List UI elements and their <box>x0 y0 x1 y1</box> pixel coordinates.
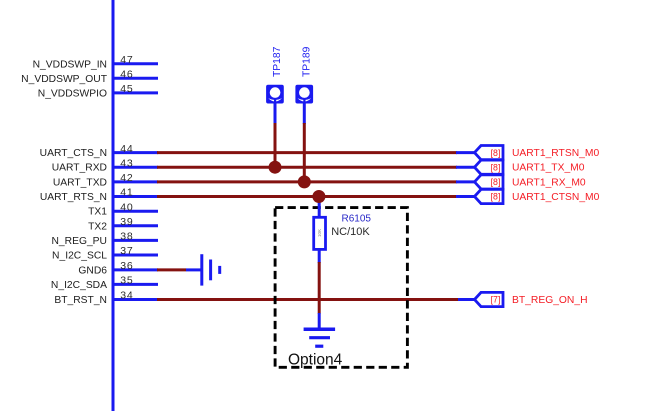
svg-text:N_REG_PU: N_REG_PU <box>51 236 107 247</box>
svg-text:UART_TXD: UART_TXD <box>53 177 107 188</box>
svg-text:N_VDDSWP_IN: N_VDDSWP_IN <box>33 59 107 70</box>
label UART1_RTSN_M0 <box>512 148 599 159</box>
svg-text:[8]: [8] <box>491 192 501 202</box>
port UART1_RTSN_M0 <box>456 146 503 160</box>
svg-text:UART_CTS_N: UART_CTS_N <box>40 148 107 159</box>
label BT_REG_ON_H <box>512 295 588 306</box>
pin 42 UART_TXD <box>53 172 158 188</box>
svg-text:40: 40 <box>120 201 133 213</box>
svg-text:[8]: [8] <box>491 177 501 187</box>
pin 46 N_VDDSWP_OUT <box>21 69 158 85</box>
svg-text:10K: 10K <box>317 229 322 237</box>
svg-text:TP189: TP189 <box>301 46 312 77</box>
svg-text:34: 34 <box>120 290 133 302</box>
pin 36 GND6 <box>78 260 158 276</box>
test point TP187 <box>266 46 284 124</box>
svg-text:N_I2C_SDA: N_I2C_SDA <box>51 280 107 291</box>
svg-text:BT_REG_ON_H: BT_REG_ON_H <box>512 295 588 306</box>
label NC/10K <box>331 226 370 238</box>
pin 38 N_REG_PU <box>51 231 158 247</box>
dashed option box <box>275 208 407 368</box>
ground symbol GND6 <box>186 254 220 285</box>
junction dot R6105/UART_RTS_N <box>312 190 325 203</box>
svg-text:UART1_CTSN_M0: UART1_CTSN_M0 <box>512 192 600 203</box>
svg-text:47: 47 <box>120 54 133 66</box>
label R6105 <box>342 214 372 225</box>
label UART1_TX_M0 <box>512 163 585 174</box>
svg-text:39: 39 <box>120 216 133 228</box>
junction dot TP187/UART_RXD <box>269 161 282 174</box>
svg-text:42: 42 <box>120 172 133 184</box>
svg-text:35: 35 <box>120 275 133 287</box>
pin 44 UART_CTS_N <box>40 143 158 159</box>
svg-text:[8]: [8] <box>491 162 501 172</box>
svg-text:UART1_RTSN_M0: UART1_RTSN_M0 <box>512 148 599 159</box>
wire R6105 to ground <box>318 262 321 314</box>
wire BT_RST_N net <box>157 298 459 301</box>
svg-text:UART_RXD: UART_RXD <box>52 163 107 174</box>
svg-text:36: 36 <box>120 260 133 272</box>
wire GND6 net <box>157 268 186 271</box>
svg-text:NC/10K: NC/10K <box>331 226 370 238</box>
pin 35 N_I2C_SDA <box>51 275 158 291</box>
wire UART_TXD net <box>157 180 457 183</box>
svg-text:38: 38 <box>120 231 133 243</box>
pin 45 N_VDDSWPIO <box>38 83 158 99</box>
svg-text:TP187: TP187 <box>272 46 283 77</box>
pin 40 TX1 <box>88 201 158 217</box>
label UART1_RX_M0 <box>512 177 586 188</box>
resistor R6105 <box>314 198 326 263</box>
ground symbol in option box <box>304 313 336 346</box>
wire TP187 to UART_RXD <box>274 123 277 167</box>
svg-text:[8]: [8] <box>491 148 501 158</box>
port UART1_CTSN_M0 <box>456 189 503 203</box>
port UART1_RX_M0 <box>456 175 503 189</box>
test point TP189 <box>295 46 313 124</box>
svg-text:[7]: [7] <box>491 295 501 305</box>
junction dot TP189/UART_TXD <box>298 175 311 188</box>
svg-text:N_I2C_SCL: N_I2C_SCL <box>52 251 107 262</box>
wire UART_RTS_N net <box>157 195 457 198</box>
svg-text:46: 46 <box>120 69 133 81</box>
svg-text:TX2: TX2 <box>88 221 107 232</box>
svg-text:41: 41 <box>120 187 133 199</box>
wire UART_CTS_N net <box>157 151 457 154</box>
svg-text:GND6: GND6 <box>78 265 107 276</box>
svg-text:UART1_TX_M0: UART1_TX_M0 <box>512 163 585 174</box>
svg-text:Option4: Option4 <box>288 352 343 369</box>
svg-text:43: 43 <box>120 157 133 169</box>
svg-text:45: 45 <box>120 83 133 95</box>
wire UART_RXD net <box>157 166 457 169</box>
svg-text:N_VDDSWP_OUT: N_VDDSWP_OUT <box>21 74 108 85</box>
svg-text:UART1_RX_M0: UART1_RX_M0 <box>512 177 586 188</box>
pin 41 UART_RTS_N <box>40 187 158 203</box>
pin 47 N_VDDSWP_IN <box>33 54 158 70</box>
svg-text:N_VDDSWPIO: N_VDDSWPIO <box>38 88 107 99</box>
pin 39 TX2 <box>88 216 158 232</box>
Option4 label <box>288 352 343 369</box>
svg-text:44: 44 <box>120 143 133 155</box>
port UART1_TX_M0 <box>456 160 503 174</box>
pin 37 N_I2C_SCL <box>52 245 158 261</box>
label UART1_CTSN_M0 <box>512 192 600 203</box>
svg-text:BT_RST_N: BT_RST_N <box>54 295 107 306</box>
svg-text:37: 37 <box>120 245 133 257</box>
wire TP189 to UART_TXD <box>303 123 306 182</box>
svg-text:UART_RTS_N: UART_RTS_N <box>40 192 107 203</box>
port BT_REG_ON_H <box>458 292 503 306</box>
pin 43 UART_RXD <box>52 157 158 173</box>
svg-text:R6105: R6105 <box>342 214 372 225</box>
pin 34 BT_RST_N <box>54 290 158 306</box>
svg-text:TX1: TX1 <box>88 207 107 218</box>
connector bus line <box>112 0 115 411</box>
